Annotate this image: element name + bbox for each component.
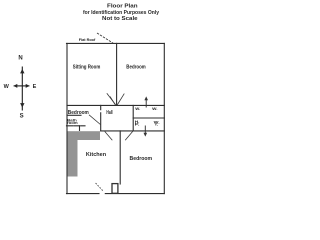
- door swing kitchen: [105, 132, 113, 141]
- hall right wall: [100, 113, 102, 131]
- mid band bottom wall: [101, 130, 165, 132]
- hall top wall: [67, 104, 164, 106]
- compass up arrowhead: [20, 69, 24, 74]
- bottom wall right segment: [105, 193, 164, 195]
- svg-text:Kitchen: Kitchen: [86, 152, 106, 158]
- closet shelf line: [133, 117, 164, 119]
- svg-text:room: room: [67, 121, 78, 125]
- svg-text:Floor Plan: Floor Plan: [107, 3, 138, 9]
- french door swing (top wall): [97, 33, 113, 43]
- svg-text:for Identification Purposes On: for Identification Purposes Only: [83, 10, 159, 16]
- attic arrow down: [144, 126, 148, 137]
- divider sitting room / bedroom 1: [116, 43, 118, 105]
- compass right arrowhead: [26, 84, 30, 88]
- svg-text:Bedroom: Bedroom: [68, 110, 89, 116]
- chimney box: [112, 184, 118, 194]
- door swing bedroom 2: [89, 115, 100, 125]
- svg-text:Hall: Hall: [106, 110, 113, 116]
- right wall: [163, 43, 165, 193]
- door swing sitting room long: [107, 93, 116, 105]
- compass N-S line: [21, 67, 23, 111]
- svg-text:r.: r.: [155, 123, 158, 127]
- door swing bedroom 1: [117, 94, 124, 105]
- bedroom 2 bottom wall: [67, 114, 81, 116]
- door swing sitting room short: [110, 97, 115, 105]
- svg-text:W: W: [4, 84, 10, 90]
- compass rose: [13, 67, 29, 111]
- front door swing: [96, 183, 104, 191]
- bathroom fixture tick: [79, 126, 81, 131]
- bathroom fixture line: [67, 125, 86, 127]
- svg-text:W.: W.: [152, 106, 157, 111]
- svg-text:Bedroom: Bedroom: [130, 156, 153, 162]
- svg-text:N: N: [18, 56, 22, 62]
- svg-text:Not to Scale: Not to Scale: [102, 16, 138, 22]
- svg-text:P.: P.: [135, 122, 140, 126]
- svg-text:S: S: [20, 113, 24, 119]
- hall door jamb stub: [100, 105, 102, 109]
- door swing bedroom 3: [125, 131, 133, 140]
- left wall: [66, 43, 68, 193]
- top wall: [67, 42, 165, 44]
- kitchen counter gray L vertical arm: [67, 140, 78, 177]
- attic arrow up: [144, 96, 148, 107]
- bottom wall left segment: [67, 193, 100, 195]
- svg-text:E: E: [33, 84, 37, 90]
- divider kitchen / bedroom 3: [119, 131, 121, 184]
- kitchen counter gray L horizontal arm: [67, 131, 101, 140]
- svg-text:Flat Roof: Flat Roof: [79, 38, 96, 42]
- compass left arrowhead: [13, 84, 17, 88]
- closet column left wall: [132, 105, 134, 130]
- compass W-E line: [14, 85, 30, 87]
- svg-text:Bedroom: Bedroom: [126, 64, 146, 70]
- svg-text:Sitting Room: Sitting Room: [73, 64, 101, 70]
- svg-text:W.: W.: [135, 106, 140, 111]
- compass down arrowhead: [20, 103, 24, 108]
